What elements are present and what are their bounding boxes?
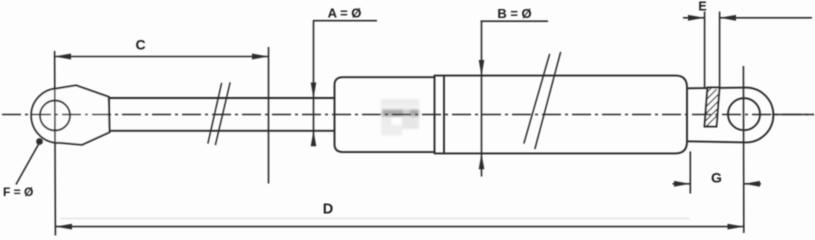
watermark logo <box>381 99 419 136</box>
dimension C line <box>55 56 269 58</box>
cylinder left cap <box>335 77 435 152</box>
right eyelet inner circle <box>728 98 760 130</box>
right bracket top edge <box>687 88 773 143</box>
C extension right <box>268 47 270 184</box>
dimension D line <box>56 226 745 228</box>
E extension line 2 <box>719 12 721 89</box>
E arrowhead left <box>720 15 736 21</box>
rod break slash 1 <box>208 84 222 144</box>
svg-text:E: E <box>698 0 706 13</box>
rod end face <box>108 97 110 132</box>
svg-text:F = Ø: F = Ø <box>3 185 33 199</box>
dimension B underline <box>481 20 549 22</box>
D right arrowhead <box>728 224 745 230</box>
B arrowhead up <box>479 153 485 169</box>
rod bottom line <box>110 130 335 132</box>
svg-text:A = Ø: A = Ø <box>328 6 362 21</box>
dimension A vertical <box>313 21 315 146</box>
C left arrowhead <box>55 54 72 60</box>
centerline solid segment right of eyelet <box>772 114 814 116</box>
washer hatch lines <box>705 88 719 127</box>
A arrowhead down <box>311 83 317 99</box>
G extension line <box>689 152 691 194</box>
C right arrowhead <box>252 54 269 60</box>
E extension line 1 <box>704 12 706 89</box>
rod break slash 2 <box>216 83 231 145</box>
svg-text:C: C <box>135 37 145 53</box>
dimension E right leader <box>720 17 812 19</box>
dimension G left leader <box>673 183 691 185</box>
rod top line <box>110 97 335 99</box>
cylinder cap ring line 1 <box>434 76 436 153</box>
G arrowhead left <box>744 181 760 187</box>
dimension A underline <box>313 20 377 22</box>
D left arrowhead <box>56 224 73 230</box>
dimension G right leader <box>744 183 761 185</box>
svg-text:B = Ø: B = Ø <box>497 6 531 21</box>
F leader line <box>16 143 40 185</box>
svg-text:D: D <box>323 202 333 218</box>
left eyelet vertical centerline / C D extension <box>54 51 57 236</box>
G arrowhead right <box>674 181 690 187</box>
F leader dot <box>36 138 43 145</box>
left eyelet and bracket silhouette <box>31 85 109 145</box>
cylinder break slash 2 <box>535 53 561 149</box>
E arrowhead right <box>688 15 704 21</box>
svg-text:G: G <box>711 170 722 186</box>
dimension B vertical <box>481 21 483 176</box>
A arrowhead up <box>311 131 317 147</box>
right eyelet vertical centerline / D extension <box>742 66 744 233</box>
washer hatched <box>705 88 720 127</box>
dimension E left leader <box>683 17 704 19</box>
cylinder cap ring line 2 <box>443 76 445 154</box>
faint scan streak <box>60 218 690 220</box>
cylinder main body <box>435 76 688 154</box>
cylinder break slash 1 <box>524 55 550 144</box>
left eyelet inner circle <box>40 101 70 131</box>
B arrowhead down <box>479 60 485 76</box>
centerline horizontal <box>2 114 814 116</box>
